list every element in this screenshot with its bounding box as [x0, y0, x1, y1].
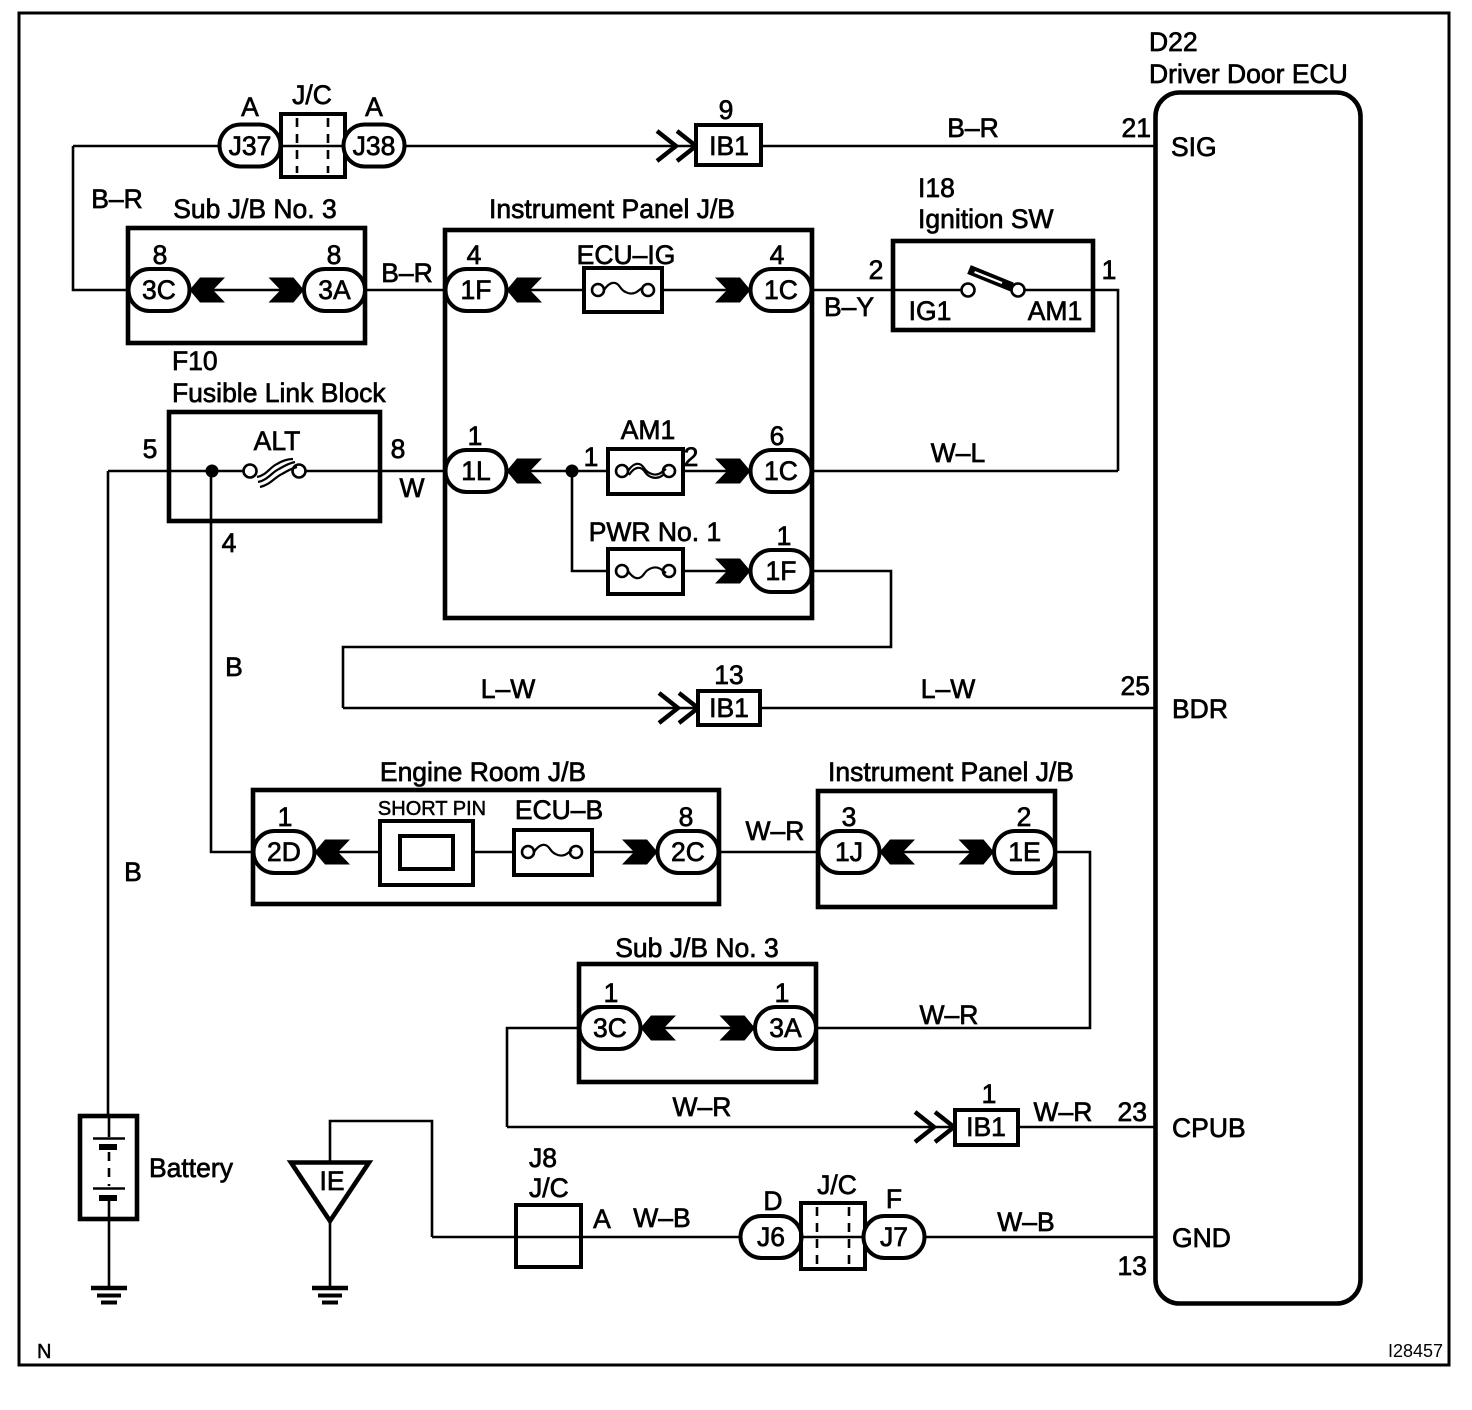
- svg-text:J8: J8: [529, 1143, 557, 1173]
- svg-text:W: W: [399, 473, 424, 503]
- arrow right at 1C row2: [715, 459, 751, 484]
- wire: W-B through J8 to J6: [432, 1236, 741, 1239]
- wire: B-R from J38 to IB1 (9): [404, 145, 696, 148]
- connector 2C: [658, 831, 719, 873]
- svg-text:PWR No. 1: PWR No. 1: [589, 517, 722, 547]
- svg-text:I28457: I28457: [1388, 1341, 1443, 1361]
- fuse PWR No.1: [608, 549, 683, 594]
- wire: from Ignition SW pin 1 down to W-L line: [1093, 290, 1118, 471]
- wire: W-R from 2C to 1J: [718, 851, 819, 854]
- svg-text:3: 3: [842, 802, 857, 832]
- svg-text:J37: J37: [229, 131, 272, 161]
- wire: junction down to PWR No.1 fuse: [572, 471, 608, 571]
- wire: B-R vertical down from J37 line: [73, 146, 129, 290]
- svg-text:13: 13: [1118, 1251, 1147, 1281]
- connector IB1 (9): [696, 125, 761, 165]
- connector 2D: [254, 831, 315, 873]
- svg-text:Battery: Battery: [149, 1153, 234, 1183]
- Sub J/B No.3 box (top): [128, 228, 365, 343]
- wire: SHORT PIN to ECU-B fuse: [473, 851, 514, 854]
- connector 1F row3: [751, 550, 812, 592]
- junction connector J/C box (top): [281, 114, 345, 177]
- wire: inside Sub J/B No.3 between 3C and 3A: [640, 1027, 755, 1030]
- wire: 1F to ECU-IG fuse: [506, 289, 584, 292]
- wire: L-W from IB1 to ECU pin 25 BDR: [760, 707, 1157, 710]
- svg-text:3A: 3A: [318, 275, 351, 305]
- junction connector J/C box (bottom): [801, 1203, 865, 1269]
- svg-text:N: N: [37, 1341, 51, 1363]
- svg-text:2D: 2D: [267, 837, 301, 867]
- svg-text:25: 25: [1121, 671, 1150, 701]
- wire: PWR No.1 fuse to 1F: [683, 570, 751, 573]
- svg-text:8: 8: [327, 240, 342, 270]
- wire: 1L to AM1 fuse with junction: [506, 470, 608, 473]
- fuse ECU-IG: [584, 268, 662, 312]
- wire: W from ALT to 1L: [380, 470, 446, 473]
- svg-text:L–W: L–W: [921, 674, 976, 704]
- battery: [80, 1116, 137, 1219]
- svg-text:2C: 2C: [671, 837, 705, 867]
- connector 1C: [751, 269, 812, 311]
- arrow left at 3C (second): [641, 1016, 677, 1041]
- svg-text:W–R: W–R: [920, 1000, 979, 1030]
- svg-text:W–L: W–L: [931, 438, 986, 468]
- wire: from left vertical to ALT fusible link: [108, 470, 169, 473]
- wire: ECU-IG fuse to 1C: [662, 289, 751, 292]
- connector 1E: [994, 831, 1055, 873]
- svg-text:1: 1: [278, 802, 293, 832]
- svg-text:AM1: AM1: [1028, 296, 1083, 326]
- svg-text:Sub J/B No. 3: Sub J/B No. 3: [615, 933, 779, 963]
- fusible link ALT symbol: [244, 459, 306, 487]
- arrow left at 3C: [190, 278, 226, 303]
- Engine Room J/B box: [253, 790, 719, 904]
- wire: from 3C left, down to W-R line: [507, 1028, 580, 1127]
- arrow left at 1F: [507, 278, 543, 303]
- connector 1F: [446, 269, 507, 311]
- svg-text:1: 1: [468, 421, 483, 451]
- svg-text:W–R: W–R: [673, 1092, 732, 1122]
- svg-text:J38: J38: [353, 131, 396, 161]
- double chevron into IB1 (1): [915, 1112, 934, 1142]
- svg-text:4: 4: [222, 528, 237, 558]
- svg-text:5: 5: [143, 434, 158, 464]
- svg-text:J6: J6: [757, 1222, 785, 1252]
- wire: B-R from IB1 to ECU pin 21 SIG: [761, 145, 1157, 148]
- wire: inside Instrument Panel J/B between 1J and 1E: [879, 851, 994, 854]
- SHORT PIN component: [380, 821, 473, 885]
- svg-text:ECU–B: ECU–B: [515, 795, 603, 825]
- svg-text:Sub J/B No. 3: Sub J/B No. 3: [173, 194, 337, 224]
- svg-text:1: 1: [1102, 255, 1117, 285]
- arrow right at 2C: [622, 840, 658, 865]
- svg-text:Engine Room J/B: Engine Room J/B: [380, 757, 586, 787]
- wire: battery to ground: [108, 1219, 111, 1288]
- svg-text:W–R: W–R: [746, 816, 805, 846]
- Sub J/B No.3 box (second): [579, 964, 816, 1082]
- fuse AM1: [608, 449, 683, 494]
- wire: from AM1 contact to box edge: [1024, 289, 1093, 292]
- svg-text:A: A: [365, 92, 383, 122]
- svg-text:B–Y: B–Y: [824, 292, 874, 322]
- svg-text:IE: IE: [319, 1166, 344, 1196]
- wire: from IE triangle top, up over and down to J8: [330, 1121, 432, 1237]
- svg-text:1: 1: [584, 442, 599, 472]
- svg-text:GND: GND: [1172, 1223, 1231, 1253]
- svg-text:1: 1: [775, 978, 790, 1008]
- ground below battery: [91, 1288, 127, 1303]
- svg-text:1F: 1F: [766, 556, 797, 586]
- svg-text:SIG: SIG: [1171, 132, 1217, 162]
- ECU D22 outline: [1156, 93, 1361, 1304]
- svg-text:3C: 3C: [593, 1013, 627, 1043]
- connector 1L: [446, 450, 507, 492]
- wire: inside ignition switch to IG1 contact: [893, 289, 962, 292]
- arrow left at 2D: [315, 840, 351, 865]
- svg-text:IB1: IB1: [966, 1112, 1006, 1142]
- wire: B-R through J/C box J37-J38: [280, 145, 345, 148]
- connector J6: [741, 1216, 802, 1258]
- double chevron into IB1 (9): [657, 131, 676, 161]
- svg-text:F: F: [886, 1184, 902, 1214]
- svg-text:2: 2: [869, 255, 884, 285]
- svg-text:J/C: J/C: [529, 1173, 569, 1203]
- svg-text:B–R: B–R: [947, 113, 999, 143]
- svg-text:CPUB: CPUB: [1172, 1113, 1246, 1143]
- wire: W-R from IB1 to ECU pin 23 CPUB: [1018, 1126, 1157, 1129]
- arrow right at 1F row3: [715, 559, 751, 584]
- svg-text:Instrument Panel J/B: Instrument Panel J/B: [828, 757, 1074, 787]
- svg-text:W–B: W–B: [633, 1203, 690, 1233]
- double chevron into IB1 (13): [659, 693, 678, 723]
- svg-text:B–R: B–R: [91, 184, 143, 214]
- wire: W-B from J7 to ECU pin 13 GND: [924, 1236, 1157, 1239]
- svg-text:Driver Door ECU: Driver Door ECU: [1149, 59, 1348, 89]
- svg-text:BDR: BDR: [1172, 694, 1228, 724]
- connector IB1 (13): [698, 691, 760, 725]
- connector IB1 (1): [955, 1110, 1018, 1145]
- wire: from 1F right, down and across to L-W line: [343, 571, 891, 708]
- svg-text:L–W: L–W: [481, 674, 536, 704]
- connector 1J: [819, 831, 880, 873]
- wire: L-W line to IB1 (13): [343, 707, 698, 710]
- svg-text:9: 9: [719, 95, 734, 125]
- svg-text:D: D: [763, 1186, 782, 1216]
- svg-text:2: 2: [684, 442, 699, 472]
- svg-text:W–B: W–B: [997, 1207, 1054, 1237]
- wire: ALT fuse to box edge: [304, 470, 380, 473]
- svg-text:IB1: IB1: [709, 693, 749, 723]
- svg-text:8: 8: [153, 240, 168, 270]
- switch contact IG1: [962, 284, 975, 297]
- svg-text:Fusible Link Block: Fusible Link Block: [172, 378, 386, 408]
- ground below IE: [312, 1288, 348, 1303]
- svg-text:J7: J7: [880, 1222, 908, 1252]
- svg-text:1E: 1E: [1008, 837, 1040, 867]
- arrow left at 1J: [880, 840, 916, 865]
- ground triangle IE: [291, 1163, 369, 1222]
- svg-text:3A: 3A: [769, 1013, 802, 1043]
- wire: AM1 fuse to 1C: [683, 470, 751, 473]
- svg-text:2: 2: [1017, 802, 1032, 832]
- svg-text:1C: 1C: [764, 456, 798, 486]
- wire: through lower J/C box: [801, 1236, 864, 1239]
- svg-text:4: 4: [467, 240, 482, 270]
- svg-text:J/C: J/C: [817, 1170, 857, 1200]
- arrow right at 1E: [959, 840, 995, 865]
- switch contact AM1: [1012, 284, 1025, 297]
- junction connector J8 box: [516, 1205, 581, 1267]
- svg-text:A: A: [241, 92, 259, 122]
- svg-text:D22: D22: [1149, 27, 1198, 57]
- wire: B-R from left vertical to J37: [73, 145, 220, 148]
- wire: inside ALT box to fuse: [169, 470, 245, 473]
- arrow right at 1C: [715, 278, 751, 303]
- junction dot at ALT: [206, 465, 219, 478]
- junction dot before AM1 fuse: [566, 465, 579, 478]
- Fusible Link Block box F10: [169, 412, 380, 521]
- connector J7: [864, 1216, 925, 1258]
- wire: IE triangle to ground: [329, 1221, 332, 1288]
- svg-text:1: 1: [604, 978, 619, 1008]
- arrow right at 3A (second): [720, 1016, 756, 1041]
- wire: B-Y from 1C to Ignition SW: [811, 289, 893, 292]
- arrow right at 3A: [269, 278, 305, 303]
- svg-text:B–R: B–R: [381, 258, 433, 288]
- wire: B long left vertical from ALT to battery: [107, 471, 110, 1117]
- svg-text:3C: 3C: [142, 275, 176, 305]
- connector J38: [344, 125, 405, 167]
- svg-text:1: 1: [777, 521, 792, 551]
- svg-text:1L: 1L: [461, 456, 490, 486]
- svg-text:AM1: AM1: [621, 415, 676, 445]
- svg-text:J/C: J/C: [292, 80, 332, 110]
- svg-text:4: 4: [770, 240, 785, 270]
- connector 3C: [129, 269, 190, 311]
- fuse ECU-B: [514, 830, 592, 875]
- connector 1C row2: [751, 450, 812, 492]
- wire: inside Sub J/B No.3 between 3C and 3A: [189, 289, 305, 292]
- svg-text:F10: F10: [172, 346, 218, 376]
- svg-text:SHORT PIN: SHORT PIN: [378, 798, 486, 820]
- wire: B-R from 3A to 1F: [364, 289, 446, 292]
- svg-text:B: B: [225, 652, 243, 682]
- wire: W-L from 1C to ignition vertical: [811, 470, 1118, 473]
- svg-text:1F: 1F: [461, 275, 492, 305]
- Ignition SW I18: [893, 241, 1093, 330]
- wire: ECU-B fuse to 2C: [592, 851, 658, 854]
- switch lever: [969, 270, 1012, 288]
- svg-text:IG1: IG1: [909, 296, 952, 326]
- svg-text:13: 13: [714, 660, 743, 690]
- wire: from 1E right, down to 3A: [816, 852, 1090, 1028]
- Instrument Panel J/B box (second): [818, 791, 1055, 907]
- wire: B from ALT pin 4 down to Engine Room J/B: [211, 471, 254, 852]
- svg-text:1J: 1J: [835, 837, 863, 867]
- svg-text:8: 8: [391, 434, 406, 464]
- connector 3A: [304, 269, 365, 311]
- svg-text:8: 8: [679, 802, 694, 832]
- svg-text:ECU–IG: ECU–IG: [577, 240, 676, 270]
- svg-text:Ignition SW: Ignition SW: [918, 204, 1054, 234]
- svg-text:21: 21: [1122, 113, 1151, 143]
- svg-text:ALT: ALT: [254, 426, 301, 456]
- svg-text:1C: 1C: [764, 275, 798, 305]
- connector 3A (second): [755, 1007, 816, 1049]
- svg-text:IB1: IB1: [709, 131, 749, 161]
- svg-text:I18: I18: [918, 173, 955, 203]
- connector 3C (second): [580, 1007, 641, 1049]
- svg-text:6: 6: [770, 421, 785, 451]
- wire: W-R line to IB1 (1): [507, 1126, 955, 1129]
- arrow left at 1L: [507, 459, 543, 484]
- svg-text:23: 23: [1118, 1097, 1147, 1127]
- svg-text:W–R: W–R: [1034, 1097, 1093, 1127]
- svg-text:B: B: [124, 857, 142, 887]
- wire: 2D to SHORT PIN: [314, 851, 380, 854]
- svg-text:Instrument Panel J/B: Instrument Panel J/B: [489, 194, 735, 224]
- svg-text:A: A: [593, 1204, 611, 1234]
- svg-text:1: 1: [982, 1079, 997, 1109]
- Instrument Panel J/B box (top): [445, 230, 812, 618]
- connector J37: [220, 125, 281, 167]
